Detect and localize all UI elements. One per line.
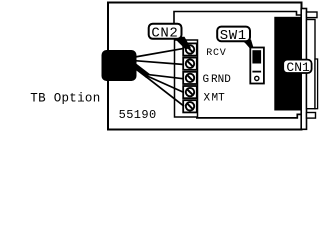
wire to screw 2 (135, 61, 184, 65)
svg-text:55190: 55190 (119, 108, 157, 122)
svg-text:CN1: CN1 (286, 60, 310, 75)
svg-text:RCV: RCV (206, 48, 226, 59)
callout SW1 (217, 27, 254, 49)
wire from CN2 to CN1 flange (top) (174, 12, 301, 25)
screw terminal 4 (XMT) (183, 86, 197, 98)
svg-text:X: X (204, 92, 211, 104)
wire to screw 5 (146, 77, 184, 107)
svg-text:CN2: CN2 (151, 26, 178, 42)
DB connector top jack screw tab (307, 12, 318, 18)
label G RND (203, 74, 232, 86)
terminal block TB outline (175, 40, 198, 117)
board outline (108, 3, 302, 130)
screw terminal 3 (G RND) (183, 72, 197, 84)
svg-text:MT: MT (212, 92, 226, 104)
connector CN1 body (black) (274, 17, 300, 111)
text TB Option (30, 92, 100, 106)
wire to screw 3 (146, 74, 184, 79)
screw terminal 2 (183, 58, 197, 70)
svg-text:G: G (203, 74, 210, 86)
callout CN1 (283, 60, 311, 76)
label RCV (206, 48, 226, 59)
DB connector middle bump (315, 59, 318, 109)
label XMT (204, 92, 226, 104)
svg-text:SW1: SW1 (220, 28, 247, 44)
svg-text:RND: RND (211, 74, 231, 86)
wire from terminal block to CN1 flange (bottom) (196, 114, 302, 118)
switch SW1 body (250, 48, 264, 84)
svg-text:TB Option: TB Option (30, 92, 100, 106)
cable blob entering board (102, 50, 149, 81)
DB connector flange (301, 9, 306, 130)
wire to screw 4 (146, 76, 184, 93)
DB connector hood (307, 20, 316, 109)
DB connector bottom jack screw tab (307, 113, 316, 119)
callout CN2 (149, 24, 191, 50)
text 55190 (119, 108, 157, 122)
screw terminal 1 (RCV) (183, 43, 197, 55)
wire to screw 1 (135, 49, 183, 57)
screw terminal 5 (183, 100, 197, 112)
